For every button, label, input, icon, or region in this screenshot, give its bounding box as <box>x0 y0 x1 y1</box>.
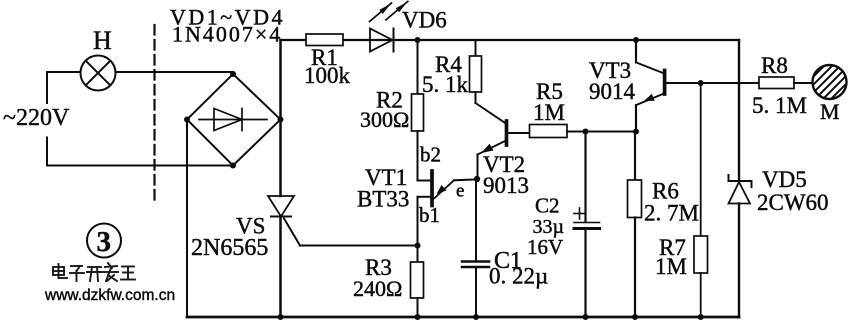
svg-text:M: M <box>820 99 840 124</box>
bridge rectifier VD1-VD4 diamond <box>187 74 281 166</box>
resistor R5 <box>530 125 568 138</box>
wire R2 to UJT b2 <box>418 131 431 181</box>
capacitor C1 <box>462 262 489 268</box>
wire VT2 base to R5 <box>508 132 530 134</box>
svg-text:b1: b1 <box>419 203 440 227</box>
svg-text:2N6565: 2N6565 <box>191 235 268 261</box>
wire DC plus vertical up from right vertex <box>279 40 282 120</box>
wire top rail corner down to VD5 <box>738 40 740 181</box>
node C2 rail <box>583 314 589 320</box>
touch plate M hatched <box>752 44 850 122</box>
wire UJT b1 down <box>418 197 431 246</box>
svg-text:~220V: ~220V <box>3 105 70 131</box>
resistor R8 <box>759 77 794 89</box>
resistor R4 <box>470 56 482 92</box>
svg-text:5. 1k: 5. 1k <box>422 72 469 97</box>
wire AC bottom <box>47 165 233 167</box>
resistor R3 <box>411 262 424 298</box>
svg-text:BT33: BT33 <box>357 187 409 212</box>
svg-text:e: e <box>456 180 464 201</box>
svg-text:16V: 16V <box>527 235 563 259</box>
node C1 rail <box>473 314 479 320</box>
wire DC minus vertical from left vertex to bottom rail <box>186 120 188 318</box>
wire VT3 base to R8 <box>666 82 759 84</box>
node bridge top vertex <box>230 71 236 77</box>
wire AC left vertical upper segment <box>46 72 48 103</box>
svg-text:2. 7M: 2. 7M <box>644 201 699 226</box>
wire R4 branch <box>475 40 477 56</box>
wire gate to b1 node <box>300 245 418 247</box>
wire VS cathode to bottom rail <box>279 217 282 318</box>
lamp H <box>81 56 116 91</box>
wire R5 to node <box>567 131 586 133</box>
node R7 rail <box>698 314 704 320</box>
node b1 junction <box>415 243 421 249</box>
wire C2 to rail <box>584 229 586 318</box>
top rail <box>281 39 740 41</box>
transistor VT3 <box>636 40 665 132</box>
wire R8 to M plate <box>794 82 813 84</box>
resistor R2 <box>412 94 424 131</box>
wire emitter node down to C1 <box>475 179 477 261</box>
svg-text:100k: 100k <box>304 63 351 88</box>
node VT3 emitter R6 <box>633 129 639 135</box>
node R5 C2 <box>583 129 589 135</box>
wire VD5 to bottom rail <box>738 204 740 318</box>
node after LED <box>415 37 421 43</box>
svg-text:H: H <box>93 26 112 55</box>
UJT emitter lead with arrow <box>434 179 476 198</box>
svg-text:9013: 9013 <box>483 173 529 198</box>
node R7 base <box>698 80 704 86</box>
svg-text:1M: 1M <box>533 100 565 125</box>
svg-text:240Ω: 240Ω <box>353 276 402 301</box>
bridge diode symbol <box>199 109 267 131</box>
LED arrow 2 <box>386 1 408 20</box>
thyristor VS <box>268 196 300 246</box>
node R6 rail <box>632 314 638 320</box>
wire node to VT3 emitter branch <box>586 131 637 133</box>
svg-text:VD5: VD5 <box>762 167 807 192</box>
svg-text:1M: 1M <box>655 254 687 279</box>
resistor R6 <box>628 180 642 218</box>
LED arrow 1 <box>370 3 392 22</box>
wire R7 to rail <box>700 273 702 317</box>
wire R3 to rail <box>417 298 419 317</box>
wire R6 branch <box>634 132 636 181</box>
svg-text:2CW60: 2CW60 <box>757 190 829 215</box>
node bridge right vertex <box>278 117 284 123</box>
svg-text:b2: b2 <box>420 143 441 167</box>
wire right vertex down to VS anode <box>279 120 282 197</box>
wire C1 to rail <box>475 267 477 317</box>
wire R7 branch <box>700 83 702 236</box>
zener diode VD5 <box>729 175 752 204</box>
wire R4 to VT2 collector <box>475 92 477 103</box>
resistor R1 <box>306 34 343 46</box>
svg-text:300Ω: 300Ω <box>360 107 409 132</box>
svg-text:5. 1M: 5. 1M <box>752 93 807 118</box>
wire AC top from left rail to lamp <box>47 71 81 73</box>
resistor R7 <box>694 236 708 273</box>
capacitor C2 polarized <box>574 208 600 229</box>
wire lamp to bridge top vertex <box>116 71 234 73</box>
wire AC left vertical lower segment <box>46 138 48 166</box>
unijunction transistor VT1 bar <box>430 171 434 206</box>
svg-text:VD6: VD6 <box>402 8 447 33</box>
svg-text:3: 3 <box>97 226 112 258</box>
node bridge left vertex <box>184 117 190 123</box>
transistor VT2 <box>476 103 507 179</box>
svg-text:R8: R8 <box>761 53 788 78</box>
dashed separator line <box>153 25 155 204</box>
LED VD6 <box>370 29 394 52</box>
wire node to C2 <box>584 132 586 223</box>
watermark chinese text dianzi kaifawang <box>53 263 135 281</box>
node bridge bottom vertex <box>230 163 236 169</box>
node VS at bottom rail <box>278 314 284 320</box>
bottom rail <box>187 316 739 319</box>
svg-text:C2: C2 <box>535 194 560 218</box>
wire R6 to rail <box>634 218 636 318</box>
node R3 rail <box>415 314 421 320</box>
svg-text:1N4007×4: 1N4007×4 <box>172 22 282 47</box>
wire R2 branch <box>417 40 419 94</box>
circled number 3 <box>87 224 121 259</box>
svg-text:0. 22µ: 0. 22µ <box>489 264 548 289</box>
node VT2 emitter junction <box>474 176 480 182</box>
svg-text:www.dzkfw.com.cn: www.dzkfw.com.cn <box>44 287 175 304</box>
node VT3 collector rail <box>633 37 639 43</box>
svg-text:9014: 9014 <box>589 79 636 104</box>
wire b1 node to R3 <box>417 246 419 263</box>
